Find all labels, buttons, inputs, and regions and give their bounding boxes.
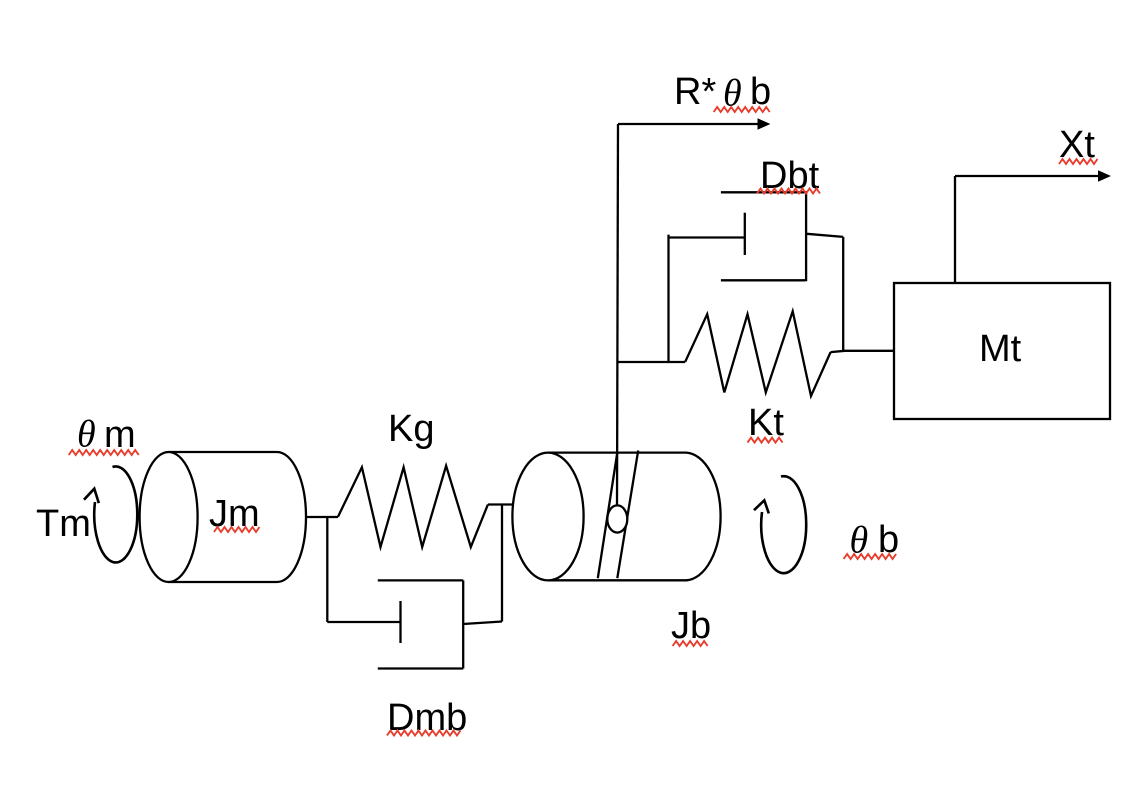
svg-text:Tm: Tm <box>36 503 91 545</box>
svg-text:m: m <box>104 414 136 456</box>
svg-text:b: b <box>750 71 771 113</box>
svg-text:Mt: Mt <box>979 328 1022 370</box>
svg-text:Kg: Kg <box>388 408 434 450</box>
svg-text:R*: R* <box>674 71 716 113</box>
